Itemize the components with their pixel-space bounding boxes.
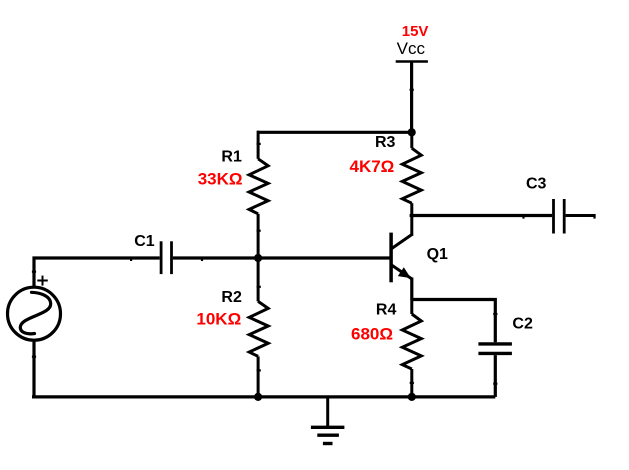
capacitor C1 — [161, 241, 171, 274]
node dot R2 bottom — [254, 393, 262, 401]
svg-text:R2: R2 — [221, 289, 242, 306]
svg-text:10KΩ: 10KΩ — [196, 310, 241, 329]
wire emitter to C2 — [412, 300, 496, 343]
resistor R1 — [249, 131, 268, 258]
svg-text:R3: R3 — [375, 134, 396, 151]
node dot R4 bottom — [408, 393, 416, 401]
svg-text:C2: C2 — [512, 316, 533, 333]
transistor Q1 — [391, 233, 413, 300]
svg-text:C3: C3 — [526, 175, 547, 192]
capacitor C2 — [412, 300, 512, 397]
wire bottom rail — [32, 395, 495, 398]
capacitor C3 — [412, 199, 596, 234]
power flag Vcc — [396, 62, 428, 133]
wire top rail — [257, 131, 412, 134]
svg-text:C1: C1 — [134, 233, 155, 250]
svg-text:15V: 15V — [402, 23, 429, 40]
svg-text:R4: R4 — [376, 302, 397, 319]
wire mid rail left (source to C1) — [34, 258, 160, 288]
AC source V1 — [8, 287, 61, 340]
svg-text:680Ω: 680Ω — [351, 325, 393, 344]
wire C2 bottom — [494, 355, 497, 397]
node dot base/R1/R2 — [254, 254, 262, 262]
wire source bottom — [32, 340, 35, 397]
plus sign — [37, 276, 48, 286]
emitter arrow — [398, 267, 411, 278]
sine wave — [20, 292, 50, 334]
wire C3 right — [566, 214, 596, 217]
resistor R3 — [402, 132, 421, 236]
wire mid rail right (C1 to base) — [173, 256, 390, 259]
svg-text:Q1: Q1 — [427, 246, 448, 263]
ground — [311, 397, 345, 444]
wire collector to C3 — [412, 214, 552, 217]
node dot Vcc/R1/R3 rail — [408, 128, 416, 136]
svg-text:Vcc: Vcc — [397, 39, 426, 58]
svg-text:33KΩ: 33KΩ — [198, 170, 243, 189]
resistor R2 — [249, 258, 268, 397]
svg-text:R1: R1 — [221, 149, 242, 166]
svg-text:4K7Ω: 4K7Ω — [350, 157, 395, 176]
resistor R4 — [402, 300, 421, 397]
pin ticks — [32, 89, 596, 385]
